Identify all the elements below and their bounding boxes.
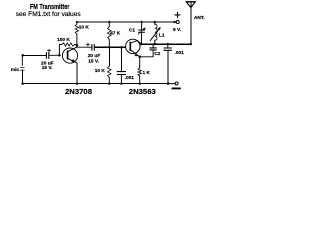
svg-text:C1: C1: [129, 28, 135, 34]
wire coupling cap to Q2 base: [94, 46, 125, 48]
transistor Q2 2N3563: [126, 39, 142, 57]
node Q2 collector junction: [140, 43, 143, 46]
svg-text:see FM1.txt for values: see FM1.txt for values: [16, 11, 82, 18]
node mic-top junction: [21, 54, 24, 57]
svg-text:.001: .001: [175, 50, 185, 56]
svg-text:10 K: 10 K: [95, 68, 106, 74]
resistor 47K bias upper: [108, 22, 121, 47]
svg-text:mic: mic: [11, 67, 20, 73]
svg-text:C2: C2: [154, 51, 160, 57]
bottom ground rail: [23, 83, 168, 85]
node base bypass tap: [120, 46, 123, 49]
wire Q1 collector to coupling cap: [77, 45, 92, 47]
node bypass cap at ground: [120, 82, 123, 85]
node Q2 emitter junction: [138, 56, 141, 59]
svg-text:9 V.: 9 V.: [173, 27, 181, 33]
resistor 100K feedback: [57, 37, 77, 46]
svg-text:10 K: 10 K: [79, 24, 90, 30]
node C1 top at rail: [140, 21, 143, 24]
svg-text:ANT.: ANT.: [194, 15, 205, 21]
node rail corner above 10K: [76, 21, 78, 23]
node tank junction: [154, 43, 157, 46]
capacitor 20uF coupling: [86, 43, 100, 64]
capacitor C1 trimmer: [129, 22, 145, 44]
node 47K top at rail: [108, 21, 111, 24]
svg-text:20 uF: 20 uF: [88, 53, 101, 59]
transistor Q1 2N3708: [62, 45, 77, 83]
resistor 10K bias lower: [95, 47, 111, 83]
node output cap at ground rail end: [167, 82, 170, 85]
node antenna tap: [190, 43, 193, 46]
svg-text:15 V.: 15 V.: [42, 65, 53, 71]
capacitor C2 feedback: [140, 44, 161, 57]
svg-text:47 K: 47 K: [110, 31, 121, 37]
inductor L1: [150, 22, 165, 44]
resistor 1K emitter: [138, 57, 150, 84]
svg-text:1 K: 1 K: [142, 70, 150, 76]
node Q1 base junction: [58, 54, 61, 57]
svg-text:.001: .001: [125, 75, 135, 81]
wire tank line collector to antenna: [141, 43, 190, 45]
capacitor .001 output: [164, 44, 184, 83]
title FM Transmitter: [30, 2, 70, 11]
resistor 10K collector load Q1: [75, 22, 89, 45]
node divider tap: [108, 46, 111, 49]
node 10K bottom at ground: [108, 82, 111, 85]
node L1 top at rail: [154, 21, 157, 24]
node 1K at ground: [138, 82, 141, 85]
svg-text:15 V.: 15 V.: [88, 59, 99, 65]
node Q1 collector junction: [76, 44, 79, 47]
capacitor 20uF input: [41, 49, 54, 71]
battery 9V positive terminal: [173, 12, 181, 33]
capacitor .001 base bypass: [117, 47, 134, 83]
wire mic to C-in: [23, 54, 47, 56]
svg-text:2N3708: 2N3708: [65, 87, 92, 96]
node rail end at battery plus: [173, 21, 176, 24]
svg-text:FM Transmitter: FM Transmitter: [30, 2, 70, 11]
node Q1 emitter at ground: [76, 82, 79, 85]
wire base node up to 100K: [58, 45, 60, 56]
battery 9V negative terminal: [168, 82, 180, 88]
svg-text:2N3563: 2N3563: [129, 87, 156, 96]
wire C-in to Q1 base: [49, 54, 60, 56]
svg-text:L1: L1: [159, 33, 165, 39]
top V+ rail: [77, 21, 175, 23]
microphone MIC: [11, 55, 24, 83]
svg-text:100 K: 100 K: [57, 37, 70, 43]
node output cap top: [167, 43, 170, 46]
node ground-left corner: [21, 82, 24, 85]
subtitle see FM1.txt for values: [16, 11, 82, 18]
antenna ANT: [186, 2, 204, 44]
